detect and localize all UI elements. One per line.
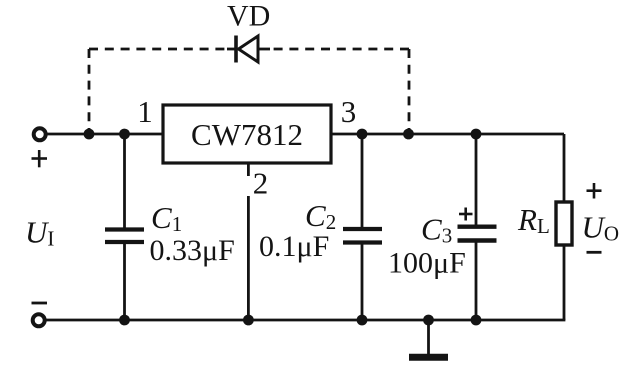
svg-text:100μF: 100μF: [388, 247, 466, 280]
node C3 bottom: [471, 315, 482, 326]
label C1: [151, 200, 182, 236]
svg-text:0.33μF: 0.33μF: [150, 234, 235, 267]
label C2: [305, 198, 336, 234]
label UO: [582, 209, 620, 245]
label UI: [25, 215, 54, 251]
svg-text:3: 3: [341, 94, 357, 129]
node dashed tap on output rail: [403, 129, 414, 140]
wire right vertical to RL: [563, 134, 566, 320]
label RL: [517, 202, 550, 238]
node ground tap: [423, 315, 434, 326]
svg-text:CW7812: CW7812: [191, 117, 303, 152]
svg-text:VD: VD: [227, 0, 270, 33]
node C1 top: [119, 129, 130, 140]
label minus output polarity: [587, 251, 602, 254]
pin 1 label: [137, 94, 153, 129]
output terminal circle: [33, 314, 45, 326]
wire pin 2: [247, 163, 250, 320]
capacitor C1: [105, 134, 144, 320]
label VD: [227, 0, 270, 33]
node pin2 bottom: [243, 315, 254, 326]
label 100uF: [388, 247, 466, 280]
input terminal circle: [34, 128, 46, 140]
op-amp-box U1 CW7812: [163, 105, 331, 163]
node C3 top: [471, 129, 482, 140]
svg-text:0.1μF: 0.1μF: [259, 230, 329, 263]
label C3: [421, 212, 452, 248]
pin 2 label: [245, 166, 271, 201]
label + C3 polarity: [459, 208, 473, 221]
label 0.33uF: [150, 234, 235, 267]
wire dashed top bypass rail: [89, 49, 409, 134]
label minus output: [32, 302, 48, 305]
wire bottom ground rail: [46, 319, 565, 322]
capacitor C3 (electrolytic): [458, 134, 497, 320]
diode VD: [227, 36, 270, 63]
wire output rail: [331, 133, 564, 136]
wire input rail left: [47, 133, 163, 136]
node C1 bottom: [119, 315, 130, 326]
resistor RL: [556, 202, 572, 245]
svg-text:2: 2: [253, 166, 269, 201]
ground: [409, 320, 448, 357]
node C2 top: [357, 129, 368, 140]
svg-text:1: 1: [137, 94, 153, 129]
label + output polarity: [587, 183, 602, 199]
pin 3 label: [341, 94, 357, 129]
capacitor C2: [343, 134, 382, 320]
node C2 bottom: [357, 315, 368, 326]
node dashed tap on input rail: [84, 129, 95, 140]
label 0.1uF: [259, 230, 329, 263]
label CW7812: [191, 117, 303, 152]
label + input: [32, 150, 48, 167]
